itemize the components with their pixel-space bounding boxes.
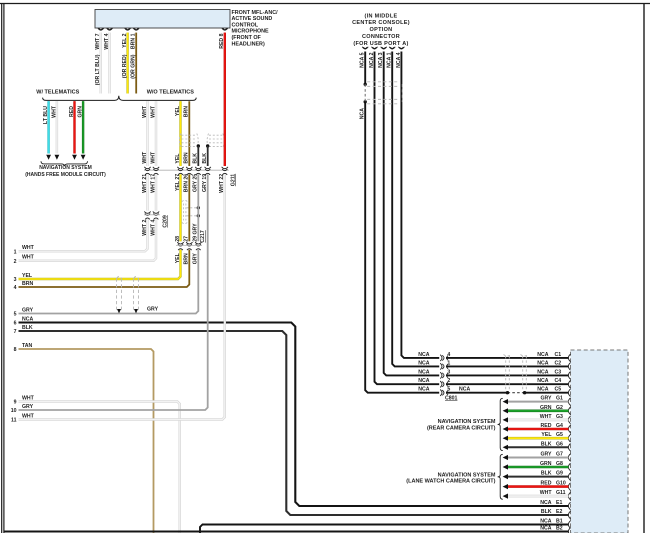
svg-text:G8: G8 (556, 461, 563, 467)
wire v3 YEL upper (YEL) (179, 101, 181, 166)
svg-text:NAVIGATION SYSTEM: NAVIGATION SYSTEM (39, 165, 92, 171)
connector stub mic pin 2 (125, 28, 131, 30)
component box: front MFL-ANC microphone (95, 10, 230, 29)
svg-text:28: 28 (175, 236, 181, 242)
junction mid tap 2 (197, 214, 200, 217)
junction C5 tap 1 (506, 391, 509, 394)
wire usb wire pin2 NCA (NCA) (375, 52, 440, 385)
wire row C1 NCA right (NCA) (446, 357, 569, 359)
junction mid tap 1 (197, 206, 200, 209)
svg-text:NCA: NCA (418, 378, 429, 384)
svg-text:C2: C2 (555, 360, 562, 366)
svg-text:W/ TELEMATICS: W/ TELEMATICS (36, 90, 79, 96)
wire v1 WHT upper (WHT) (146, 101, 148, 166)
svg-text:YEL: YEL (175, 153, 181, 164)
wire mic pin1 BRN (BRN) (135, 33, 137, 94)
wire lane watch BLK G9 (BLK) (508, 476, 569, 478)
connector symbol C801 b (440, 363, 448, 369)
svg-text:BRN: BRN (22, 281, 33, 287)
svg-text:NCA: NCA (418, 352, 429, 358)
brace: navigation system group (41, 161, 88, 166)
svg-text:NCA: NCA (459, 387, 470, 393)
arrow lane watch arrow 4 (503, 494, 508, 499)
wire hands-free LT BLU (LBL) (47, 101, 49, 153)
connector stub mic pin 1 (133, 28, 139, 30)
junction usb tap 2 (364, 100, 367, 103)
connector stub nav box pin 9 (568, 434, 570, 442)
svg-text:NCA: NCA (537, 387, 548, 393)
svg-text:BRN: BRN (184, 106, 190, 117)
svg-text:(OR RED): (OR RED) (122, 54, 128, 78)
svg-text:WHT: WHT (150, 151, 156, 164)
connector stub nav box pin 12 (568, 463, 570, 471)
svg-text:NCA 4: NCA 4 (396, 52, 402, 67)
brace: lane watch circuit (498, 454, 503, 499)
brace: rear camera circuit (498, 398, 503, 450)
svg-text:(REAR CAMERA CIRCUIT): (REAR CAMERA CIRCUIT) (427, 426, 496, 432)
connector stub usb pin 4 (398, 47, 404, 49)
arrow rear cam arrow 4 (503, 436, 508, 441)
label: microphone description (232, 10, 279, 48)
svg-text:WHT 4: WHT 4 (104, 33, 110, 49)
svg-text:C209: C209 (163, 215, 169, 228)
svg-text:BRN 1: BRN 1 (131, 33, 137, 49)
wire row11 WHT (WHT) (19, 174, 225, 419)
wire usb u1 dashed optional segment (364, 84, 366, 102)
svg-text:NAVIGATION SYSTEM: NAVIGATION SYSTEM (438, 419, 496, 425)
svg-text:G4: G4 (556, 423, 563, 429)
svg-text:BLK: BLK (541, 509, 552, 515)
ghost optional wiring (usb) (367, 82, 402, 104)
svg-text:MICROPHONE: MICROPHONE (232, 29, 270, 35)
junction usb tap 1 (364, 83, 367, 86)
svg-text:E1: E1 (556, 500, 562, 506)
arrow ghost tap 2 (134, 309, 138, 313)
svg-text:27: 27 (184, 236, 190, 242)
svg-text:NCA: NCA (537, 352, 548, 358)
svg-text:HEADLINER): HEADLINER) (232, 41, 265, 47)
svg-text:RED: RED (541, 423, 552, 429)
svg-text:G6: G6 (556, 441, 563, 447)
ghost optional connector over C rows (504, 355, 529, 391)
connector symbol C209 pin 2 (144, 212, 150, 220)
svg-text:C801: C801 (445, 395, 458, 401)
wire v3 YEL mid (YEL) (179, 174, 181, 241)
wire lane watch WHT G11 (WHT) (508, 495, 569, 498)
ghost optional wiring (mid) (182, 200, 197, 223)
brace: telematics options merge (43, 96, 197, 101)
junction C5 tap 2 (523, 391, 526, 394)
svg-text:(HANDS FREE MODULE CIRCUIT): (HANDS FREE MODULE CIRCUIT) (25, 172, 106, 178)
component box: navigation unit (dashed) (571, 350, 629, 533)
connector stub usb pin 2 (372, 47, 378, 49)
svg-text:G211: G211 (230, 174, 236, 187)
wire v4 BRN mid (BRN) (188, 174, 190, 241)
connector stub nav box pin 19 (568, 528, 570, 533)
svg-text:(FOR USB PORT A): (FOR USB PORT A) (353, 41, 408, 47)
svg-text:NCA: NCA (418, 360, 429, 366)
connector stub nav box pin 1 (568, 363, 570, 371)
svg-text:NCA: NCA (540, 500, 551, 506)
connector symbol G211 pin 3 (186, 167, 192, 175)
svg-text:NCA 3: NCA 3 (378, 52, 384, 67)
svg-text:3: 3 (14, 277, 17, 283)
svg-text:4: 4 (14, 285, 17, 291)
arrow rear cam arrow 1 (503, 408, 508, 413)
svg-text:NCA 2: NCA 2 (369, 52, 375, 67)
wire row5 GRY (GRY) (19, 250, 199, 314)
svg-text:NCA 1: NCA 1 (387, 52, 393, 67)
connector C209 body line (144, 214, 160, 216)
arrow to nav 4 (81, 155, 86, 160)
svg-text:GRY: GRY (147, 307, 159, 313)
connector stub nav box pin 14 (568, 483, 570, 491)
connector stub usb pin 3 (381, 47, 387, 49)
svg-text:NCA: NCA (360, 108, 366, 119)
svg-text:G9: G9 (556, 471, 563, 477)
svg-text:RED: RED (69, 106, 75, 117)
connector stub nav box pin 18 (568, 521, 570, 529)
wire rear cam RED G4 (RED) (508, 428, 569, 431)
connector symbol G211 pin 4 (195, 167, 201, 175)
wire row B1 NCA (NCA) (200, 525, 569, 533)
connector stub mic pin 7 (98, 28, 104, 30)
connector stub nav box pin 11 (568, 454, 570, 462)
wire row C5 NCA right b (NCA) (525, 392, 569, 394)
svg-text:G2: G2 (556, 405, 563, 411)
wire mic pin4 WHT (WHT) (108, 33, 110, 94)
svg-text:29 GRY: 29 GRY (193, 223, 199, 242)
connector stub nav box pin 6 (568, 407, 570, 415)
svg-text:WHT: WHT (540, 414, 553, 420)
wire row3 YEL (YEL) (19, 250, 181, 279)
connector symbol C801 e (440, 390, 448, 396)
svg-text:C4: C4 (555, 378, 562, 384)
junction drain tap 2 (206, 144, 209, 147)
arrow lane watch arrow 0 (503, 455, 508, 460)
svg-text:E2: E2 (556, 509, 562, 515)
svg-text:G10: G10 (556, 481, 566, 487)
svg-text:BRN: BRN (184, 152, 190, 163)
wire v5 GRY mid (GRY) (197, 174, 199, 241)
svg-text:7: 7 (14, 329, 17, 335)
svg-text:BLK: BLK (22, 325, 33, 331)
connector stub usb pin 5 (362, 47, 368, 49)
svg-text:GRN: GRN (540, 405, 552, 411)
svg-text:NCA: NCA (537, 369, 548, 375)
wire rear cam BLK G6 (BLK) (508, 446, 569, 448)
arrow lane watch arrow 2 (503, 474, 508, 479)
arrow ghost tap 1 (117, 309, 121, 313)
ghost optional wiring (shield area) (180, 134, 225, 149)
svg-text:WHT: WHT (142, 151, 148, 164)
arrow rear cam arrow 3 (503, 426, 508, 431)
svg-text:NCA: NCA (418, 387, 429, 393)
wire hands-free WHT (WHT) (56, 101, 58, 153)
svg-text:6: 6 (14, 321, 17, 327)
connector symbol C217 pin 29 (195, 242, 201, 250)
wire rear cam GRY G1 (GRY) (508, 401, 569, 403)
wire usb wire pin5 NCA lower (NCA) (365, 102, 439, 393)
wire rear cam WHT G3 (WHT) (508, 419, 569, 422)
arrow to nav 1 (46, 155, 51, 160)
connector stub nav box pin 3 (568, 380, 570, 388)
wire usb wire pin5 NCA upper (NCA) (364, 52, 366, 85)
wire mic RED 8 (RED) (224, 33, 226, 166)
wire row7 BLK (BLK) (19, 331, 569, 515)
svg-text:C5: C5 (555, 387, 562, 393)
svg-text:NCA: NCA (418, 369, 429, 375)
connector stub nav box pin 8 (568, 425, 570, 433)
svg-text:GRY: GRY (540, 452, 552, 458)
svg-text:(FRONT OF: (FRONT OF (232, 35, 262, 41)
connector symbol G211 pin 5 (205, 167, 211, 175)
connector stub nav box pin 4 (568, 389, 570, 397)
wire mic pin7 WHT (WHT) (100, 33, 102, 94)
wire mic pin2 YEL (YEL) (126, 33, 128, 94)
svg-text:NCA: NCA (22, 316, 33, 322)
wire row C3 NCA right (NCA) (446, 374, 569, 376)
svg-text:G3: G3 (556, 414, 563, 420)
page border left (double) (2, 4, 4, 533)
svg-text:OPTION: OPTION (370, 27, 393, 33)
svg-text:G1: G1 (556, 396, 563, 402)
connector stub nav box pin 16 (568, 502, 570, 510)
svg-text:1: 1 (14, 249, 17, 255)
wire v5 BLK drain (BLK) (197, 146, 199, 166)
arrow rear cam arrow 2 (503, 417, 508, 422)
svg-text:YEL: YEL (175, 105, 181, 116)
connector stub nav box pin 10 (568, 444, 570, 452)
wire rear cam YEL G5 (YEL) (508, 437, 569, 440)
svg-text:LT BLU: LT BLU (43, 106, 49, 124)
wire row9 WHT (WHT) (19, 402, 180, 533)
connector stub nav box pin 2 (568, 372, 570, 380)
wire row4 BRN (BRN) (19, 250, 190, 287)
arrow to nav 3 (72, 155, 77, 160)
wire lane watch RED G10 (RED) (508, 485, 569, 488)
svg-text:BLK: BLK (193, 153, 199, 164)
wire v4 BRN upper (BRN) (188, 101, 190, 166)
svg-text:NCA: NCA (537, 360, 548, 366)
svg-text:GRY: GRY (22, 404, 34, 410)
wire row1 WHT (WHT) (19, 219, 148, 251)
connector symbol C209 pin 4 (153, 212, 159, 220)
svg-text:WHT: WHT (142, 105, 148, 118)
svg-text:WHT: WHT (150, 105, 156, 118)
svg-text:G7: G7 (556, 452, 563, 458)
svg-text:2: 2 (14, 259, 17, 265)
connector stub nav box pin 17 (568, 511, 570, 519)
ghost optional taps onto GRY (117, 277, 139, 311)
arrow rear cam arrow 5 (503, 445, 508, 450)
connector C217 body line (176, 245, 202, 247)
svg-text:YEL: YEL (541, 432, 552, 438)
wire row C2 NCA right (NCA) (446, 365, 569, 367)
svg-text:RED: RED (541, 481, 552, 487)
connector symbol G211 pin 6 (222, 167, 228, 175)
wire rear cam GRN G2 (GRN) (508, 409, 569, 412)
connector symbol G211 pin 1 (153, 167, 159, 175)
connector symbol C801 c (440, 372, 448, 378)
svg-text:YEL 2: YEL 2 (122, 33, 128, 47)
svg-text:GRN: GRN (78, 106, 84, 118)
svg-text:WHT: WHT (51, 105, 57, 118)
svg-text:BLK: BLK (202, 153, 208, 164)
connector symbol G211 pin 0 (144, 167, 150, 175)
junction drain tap 1 (197, 144, 200, 147)
svg-text:G5: G5 (556, 432, 563, 438)
svg-text:NCA: NCA (537, 378, 548, 384)
wire usb wire pin4 NCA (NCA) (401, 52, 439, 358)
connector stub mic pin 4 (107, 28, 113, 30)
wire row6 NCA (NCA) (19, 323, 569, 507)
connector stub mic pin 8 (222, 28, 228, 30)
connector stub nav box pin 7 (568, 416, 570, 424)
svg-text:FRONT MFL-ANC/: FRONT MFL-ANC/ (232, 10, 279, 16)
page border top (0, 3, 650, 5)
connector G211 body line (144, 169, 229, 171)
wire lane watch GRN G8 (GRN) (508, 466, 569, 469)
arrow rear cam arrow 0 (503, 399, 508, 404)
svg-text:CONNECTOR: CONNECTOR (362, 34, 400, 40)
wire usb wire pin3 NCA (NCA) (384, 52, 440, 376)
wire lane watch GRY G7 (GRY) (508, 457, 569, 459)
arrow lane watch arrow 1 (503, 464, 508, 469)
wire row C4 NCA right (NCA) (446, 383, 569, 385)
svg-text:9: 9 (14, 400, 17, 406)
svg-text:WHT: WHT (540, 490, 553, 496)
svg-text:(LANE WATCH CAMERA CIRCUIT): (LANE WATCH CAMERA CIRCUIT) (406, 479, 495, 485)
svg-text:C217: C217 (200, 230, 206, 243)
wire v1 WHT mid (WHT) (146, 174, 148, 210)
svg-text:BLK: BLK (541, 471, 552, 477)
svg-text:GRN: GRN (540, 461, 552, 467)
svg-text:C3: C3 (555, 369, 562, 375)
svg-text:G11: G11 (556, 490, 566, 496)
arrow lane watch arrow 3 (503, 484, 508, 489)
page border right (643, 4, 645, 533)
svg-text:CONTROL: CONTROL (232, 22, 259, 28)
connector symbol C217 pin 28 (177, 242, 183, 250)
connector symbol C801 a (440, 355, 448, 361)
connector stub usb pin 1 (389, 47, 395, 49)
wire hands-free GRN (GRN) (82, 101, 84, 153)
svg-text:ACTIVE SOUND: ACTIVE SOUND (232, 16, 273, 22)
ghost dashed segment row C5 (508, 392, 525, 394)
wire usb wire pin1 NCA (NCA) (392, 52, 439, 367)
arrow to nav 2 (55, 155, 60, 160)
svg-text:NAVIGATION SYSTEM: NAVIGATION SYSTEM (438, 472, 496, 478)
wire row8 TAN (TAN) (19, 349, 154, 533)
svg-text:8: 8 (14, 347, 17, 353)
connector stub nav box pin 13 (568, 473, 570, 481)
svg-text:W/O TELEMATICS: W/O TELEMATICS (147, 90, 195, 96)
wire v2 WHT mid (WHT) (155, 174, 157, 210)
wire row10 GRY (GRY) (19, 174, 208, 410)
connector stub nav box pin 5 (568, 398, 570, 406)
wire v2 WHT upper (WHT) (155, 101, 157, 166)
svg-text:(OR LT BLU): (OR LT BLU) (95, 54, 101, 85)
label: option connector description (352, 13, 410, 47)
svg-text:TAN: TAN (22, 343, 33, 349)
wire row B2 NCA (NCA) (5, 531, 569, 533)
svg-text:(IN MIDDLE: (IN MIDDLE (365, 13, 398, 19)
svg-text:(OR GRN): (OR GRN) (131, 54, 137, 78)
svg-text:11: 11 (11, 418, 17, 424)
wire row C5 NCA right a (NCA) (446, 392, 508, 394)
connector symbol C801 d (440, 381, 448, 387)
connector stub nav box pin 0 (568, 354, 570, 362)
svg-text:C1: C1 (555, 352, 562, 358)
svg-text:GRY: GRY (22, 307, 34, 313)
wire v6 BLK drain (BLK) (207, 146, 209, 166)
svg-text:WHT 7: WHT 7 (95, 33, 101, 49)
svg-text:BLK: BLK (541, 441, 552, 447)
svg-text:NCA 5: NCA 5 (360, 52, 366, 67)
wire hands-free RED (RED) (73, 101, 75, 153)
svg-text:CENTER CONSOLE): CENTER CONSOLE) (352, 20, 410, 26)
connector stub nav box pin 15 (568, 492, 570, 500)
svg-text:5: 5 (14, 312, 17, 318)
svg-text:GRY: GRY (540, 396, 552, 402)
wire row2 WHT (WHT) (19, 219, 157, 261)
svg-text:10: 10 (11, 408, 17, 414)
connector symbol G211 pin 2 (177, 167, 183, 175)
connector symbol C217 pin 27 (186, 242, 192, 250)
